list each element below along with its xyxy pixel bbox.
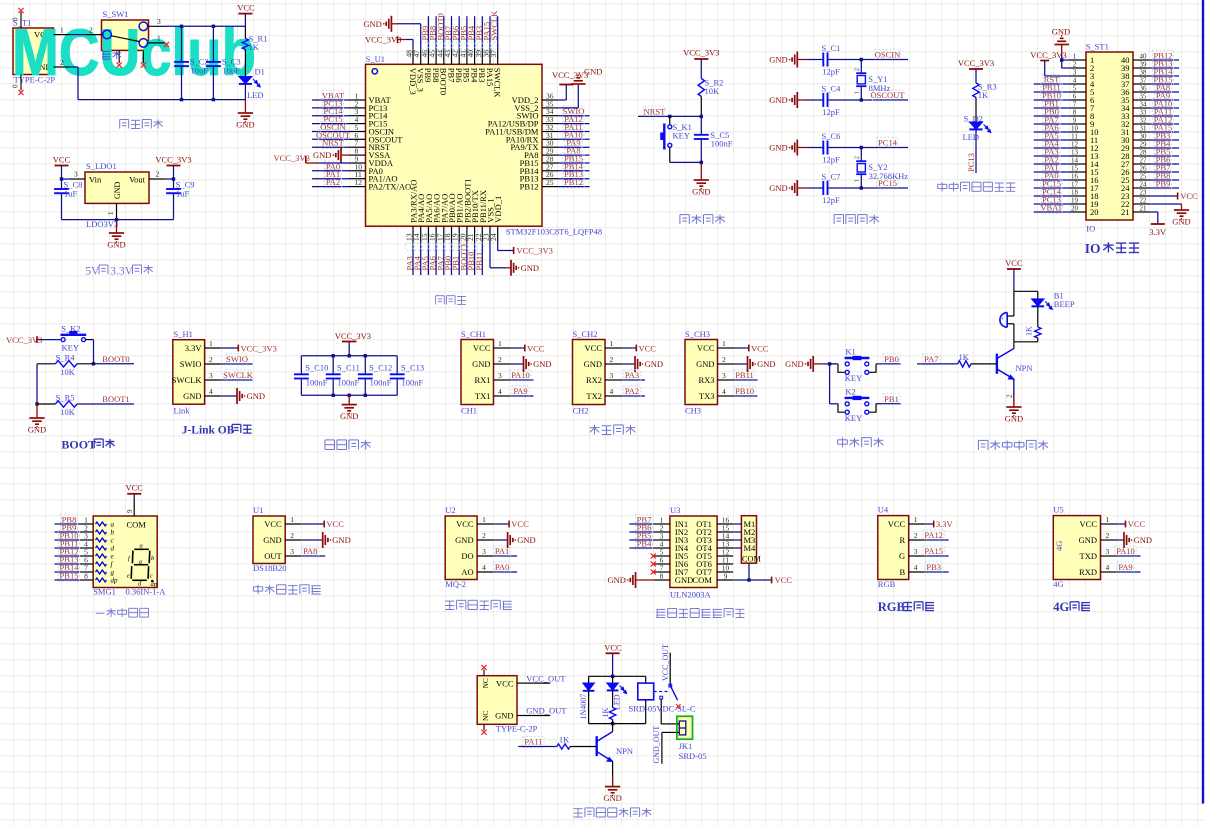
- svg-text:VCC_3V3: VCC_3V3: [274, 153, 310, 163]
- svg-text:1K: 1K: [249, 42, 260, 52]
- svg-text:PA9: PA9: [513, 386, 527, 396]
- svg-text:U1: U1: [253, 505, 263, 515]
- svg-text:1: 1: [107, 211, 115, 215]
- svg-text:1: 1: [610, 339, 614, 348]
- svg-text:SWCLK: SWCLK: [223, 370, 254, 380]
- svg-text:0: 0: [12, 17, 20, 21]
- svg-text:PC14: PC14: [878, 138, 898, 148]
- svg-text:VDD_1: VDD_1: [493, 196, 503, 223]
- svg-text:K2: K2: [845, 386, 855, 396]
- svg-text:TYPE-C-2P: TYPE-C-2P: [496, 724, 538, 734]
- svg-text:1uF: 1uF: [64, 189, 78, 199]
- svg-text:Vin: Vin: [89, 174, 102, 184]
- svg-text:1: 1: [1106, 515, 1110, 524]
- svg-text:12pF: 12pF: [822, 67, 840, 77]
- svg-text:6: 6: [1073, 93, 1077, 101]
- svg-text:b: b: [111, 529, 115, 537]
- svg-text:5: 5: [1073, 85, 1077, 93]
- svg-text:2: 2: [482, 531, 486, 540]
- svg-text:g: g: [111, 569, 115, 577]
- svg-text:a: a: [140, 542, 143, 549]
- svg-text:GND: GND: [1079, 535, 1097, 545]
- svg-text:S_C10: S_C10: [305, 363, 328, 373]
- svg-text:SWIO: SWIO: [180, 359, 202, 369]
- svg-text:2: 2: [1006, 394, 1014, 398]
- svg-text:Vout: Vout: [129, 174, 146, 184]
- svg-text:AO: AO: [461, 567, 473, 577]
- svg-text:1: 1: [854, 179, 861, 182]
- svg-text:25: 25: [1140, 173, 1148, 181]
- svg-text:R: R: [900, 535, 906, 545]
- svg-text:VCC_OUT: VCC_OUT: [526, 673, 566, 683]
- svg-text:RX2: RX2: [586, 375, 602, 385]
- svg-text:GND: GND: [263, 535, 281, 545]
- svg-text:GND: GND: [769, 143, 787, 153]
- svg-text:PA10: PA10: [1116, 546, 1135, 556]
- svg-text:S_R5: S_R5: [56, 393, 75, 403]
- svg-text:12: 12: [355, 178, 363, 187]
- svg-text:2: 2: [89, 26, 93, 35]
- svg-text:SWCLK: SWCLK: [493, 68, 503, 99]
- svg-text:36: 36: [1140, 85, 1148, 93]
- svg-text:STM32F103C8T6_LQFP48: STM32F103C8T6_LQFP48: [506, 227, 602, 237]
- svg-text:GND: GND: [1172, 217, 1190, 227]
- svg-text:OSCIN: OSCIN: [875, 50, 901, 60]
- svg-text:d: d: [111, 545, 115, 553]
- svg-text:GND: GND: [757, 359, 775, 369]
- svg-text:GND: GND: [247, 391, 265, 401]
- svg-text:PA12: PA12: [924, 530, 943, 540]
- svg-text:RX3: RX3: [698, 375, 714, 385]
- svg-text:GND: GND: [675, 575, 693, 585]
- svg-text:BOOT1: BOOT1: [102, 394, 129, 404]
- svg-text:PA11: PA11: [524, 737, 542, 747]
- svg-text:S_R4: S_R4: [56, 352, 76, 362]
- svg-text:S_C7: S_C7: [822, 172, 841, 182]
- svg-text:4G: 4G: [1054, 541, 1064, 551]
- svg-text:VBAT: VBAT: [1040, 203, 1063, 213]
- svg-text:1K: 1K: [959, 352, 970, 362]
- svg-text:LED: LED: [247, 90, 264, 100]
- svg-text:29: 29: [1140, 141, 1148, 149]
- svg-text:100nF: 100nF: [338, 378, 360, 388]
- svg-text:GND: GND: [28, 425, 46, 435]
- svg-text:11: 11: [1071, 133, 1078, 141]
- svg-text:1: 1: [290, 515, 294, 524]
- svg-text:PA8: PA8: [303, 546, 317, 556]
- svg-text:U3: U3: [670, 505, 680, 515]
- svg-text:BEEP: BEEP: [1054, 299, 1075, 309]
- svg-text:PA7: PA7: [924, 354, 938, 364]
- svg-text:20: 20: [1090, 207, 1099, 217]
- svg-text:S_U1: S_U1: [366, 54, 385, 64]
- svg-text:S_CH3: S_CH3: [685, 329, 710, 339]
- svg-text:GND: GND: [696, 359, 714, 369]
- svg-text:10uF: 10uF: [222, 65, 240, 75]
- svg-text:PA3: PA3: [625, 370, 639, 380]
- svg-text:40: 40: [1140, 53, 1148, 61]
- svg-text:+: +: [1001, 316, 1005, 323]
- svg-text:COM: COM: [127, 520, 147, 530]
- svg-text:GND: GND: [584, 67, 602, 77]
- svg-text:VCC: VCC: [1128, 519, 1146, 529]
- svg-text:SMG1: SMG1: [93, 586, 116, 596]
- svg-text:PB3: PB3: [926, 562, 941, 572]
- svg-text:3: 3: [914, 547, 918, 556]
- svg-text:VCC: VCC: [53, 155, 71, 165]
- svg-text:1: 1: [60, 26, 64, 35]
- svg-text:1: 1: [914, 515, 918, 524]
- svg-text:2: 2: [1073, 61, 1077, 69]
- svg-text:4: 4: [482, 563, 486, 572]
- svg-text:4: 4: [610, 387, 614, 396]
- svg-text:0.36IN-1-A: 0.36IN-1-A: [126, 586, 167, 596]
- svg-text:8MHz: 8MHz: [869, 83, 891, 93]
- svg-text:35: 35: [1140, 93, 1148, 101]
- svg-text:JK1: JK1: [679, 741, 693, 751]
- svg-text:8: 8: [84, 572, 88, 581]
- svg-text:B: B: [900, 567, 906, 577]
- svg-text:1K: 1K: [978, 90, 989, 100]
- svg-text:TX3: TX3: [699, 391, 715, 401]
- svg-text:SRD-05: SRD-05: [679, 751, 707, 761]
- svg-text:9: 9: [1073, 117, 1077, 125]
- svg-text:8: 8: [1073, 109, 1077, 117]
- svg-text:VCC: VCC: [511, 519, 529, 529]
- svg-text:4: 4: [498, 387, 502, 396]
- svg-text:2: 2: [156, 170, 160, 179]
- svg-text:VCC: VCC: [697, 343, 715, 353]
- svg-text:34: 34: [1140, 101, 1148, 109]
- svg-text:VCC: VCC: [775, 575, 793, 585]
- svg-text:21: 21: [1140, 205, 1148, 213]
- svg-text:VCC_3V3: VCC_3V3: [365, 35, 401, 45]
- svg-text:VCC: VCC: [527, 344, 545, 354]
- svg-text:32.768KHz: 32.768KHz: [869, 171, 909, 181]
- svg-text:SWCLK: SWCLK: [489, 10, 499, 41]
- svg-text:GND: GND: [533, 359, 551, 369]
- svg-text:VCC_OUT: VCC_OUT: [661, 644, 670, 681]
- svg-text:NC: NC: [481, 711, 490, 721]
- svg-text:dp: dp: [151, 581, 158, 588]
- svg-text:TX1: TX1: [475, 391, 491, 401]
- svg-text:ULN2003A: ULN2003A: [670, 590, 711, 600]
- svg-text:GND: GND: [769, 183, 787, 193]
- svg-text:PB4: PB4: [637, 539, 652, 549]
- svg-text:19: 19: [1071, 197, 1079, 205]
- svg-text:IO: IO: [1085, 241, 1101, 256]
- svg-text:VCC: VCC: [585, 343, 603, 353]
- svg-text:4G: 4G: [1053, 579, 1063, 589]
- svg-text:PA1: PA1: [495, 546, 509, 556]
- svg-text:4: 4: [722, 387, 726, 396]
- svg-text:3.3V: 3.3V: [1149, 227, 1167, 237]
- svg-text:TXD: TXD: [1080, 551, 1097, 561]
- svg-text:GND: GND: [521, 263, 539, 273]
- svg-text:100nF: 100nF: [370, 378, 392, 388]
- svg-text:GND: GND: [692, 187, 710, 197]
- svg-text:M4: M4: [744, 543, 757, 553]
- svg-text:26: 26: [1140, 165, 1148, 173]
- svg-text:3.3V: 3.3V: [936, 519, 954, 529]
- svg-text:S_C4: S_C4: [822, 84, 842, 94]
- svg-text:PA15: PA15: [924, 546, 943, 556]
- svg-text:GND: GND: [363, 19, 381, 29]
- svg-text:KEY: KEY: [845, 373, 862, 383]
- svg-text:VCC_3V3: VCC_3V3: [552, 70, 588, 80]
- svg-text:3: 3: [209, 371, 213, 380]
- svg-text:4: 4: [1106, 563, 1110, 572]
- svg-text:9: 9: [126, 509, 134, 513]
- svg-text:a: a: [111, 521, 115, 529]
- svg-text:VCC_3V3: VCC_3V3: [517, 246, 553, 256]
- svg-text:3.3V: 3.3V: [110, 266, 133, 278]
- svg-text:RXD: RXD: [1079, 567, 1097, 577]
- svg-text:NC: NC: [481, 678, 490, 688]
- svg-text:24: 24: [489, 233, 498, 241]
- svg-text:GND: GND: [769, 95, 787, 105]
- svg-text:100nF: 100nF: [402, 378, 424, 388]
- svg-text:VCC_3V3: VCC_3V3: [335, 331, 371, 341]
- svg-text:J-Link OB: J-Link OB: [182, 425, 235, 437]
- svg-text:GND: GND: [455, 535, 473, 545]
- svg-text:PB11: PB11: [735, 370, 754, 380]
- svg-text:PB9: PB9: [1156, 179, 1171, 189]
- svg-text:e: e: [127, 573, 130, 580]
- svg-text:37: 37: [1140, 77, 1148, 85]
- svg-text:33: 33: [1140, 109, 1148, 117]
- svg-text:VCC: VCC: [639, 344, 657, 354]
- svg-text:12: 12: [1071, 141, 1079, 149]
- svg-text:VCC: VCC: [264, 519, 282, 529]
- svg-text:12pF: 12pF: [822, 195, 840, 205]
- svg-text:PB12: PB12: [520, 182, 539, 192]
- svg-text:CH2: CH2: [573, 406, 589, 416]
- svg-text:GND: GND: [107, 240, 125, 250]
- svg-text:1: 1: [498, 339, 502, 348]
- svg-text:10K: 10K: [705, 86, 721, 96]
- svg-text:GND: GND: [603, 793, 621, 803]
- svg-text:9: 9: [724, 572, 728, 581]
- svg-text:3: 3: [290, 547, 294, 556]
- svg-text:NRST: NRST: [322, 138, 345, 148]
- svg-text:30: 30: [1140, 133, 1148, 141]
- svg-text:RGB: RGB: [878, 600, 905, 614]
- svg-text:RGB: RGB: [878, 579, 896, 589]
- svg-text:NRST: NRST: [644, 106, 667, 116]
- svg-text:TX2: TX2: [586, 391, 602, 401]
- svg-text:20: 20: [1071, 205, 1079, 213]
- svg-text:CH3: CH3: [685, 406, 701, 416]
- svg-text:CH1: CH1: [461, 406, 477, 416]
- svg-text:GND: GND: [1134, 535, 1152, 545]
- svg-text:12pF: 12pF: [822, 107, 840, 117]
- svg-text:3: 3: [722, 371, 726, 380]
- svg-text:VCC: VCC: [888, 519, 906, 529]
- svg-text:2: 2: [722, 355, 726, 364]
- svg-text:13: 13: [1071, 149, 1079, 157]
- svg-text:VCC: VCC: [496, 678, 514, 688]
- svg-text:LDO3V3: LDO3V3: [86, 219, 118, 229]
- svg-text:1: 1: [209, 339, 213, 348]
- svg-text:5V: 5V: [85, 266, 100, 278]
- svg-text:PA2: PA2: [326, 177, 340, 187]
- svg-text:PB1: PB1: [884, 394, 899, 404]
- svg-text:25: 25: [546, 178, 554, 187]
- svg-text:GND: GND: [236, 120, 254, 130]
- svg-text:U2: U2: [445, 505, 455, 515]
- svg-text:U5: U5: [1053, 505, 1063, 515]
- svg-text:100nF: 100nF: [306, 378, 328, 388]
- svg-text:PB10: PB10: [735, 386, 754, 396]
- svg-text:GND: GND: [113, 181, 122, 199]
- svg-text:VCC: VCC: [1180, 191, 1198, 201]
- svg-text:18: 18: [1071, 189, 1079, 197]
- svg-text:S_CH2: S_CH2: [573, 329, 598, 339]
- svg-text:GND: GND: [769, 55, 787, 65]
- svg-text:4: 4: [914, 563, 918, 572]
- svg-text:dp: dp: [111, 577, 119, 585]
- svg-text:PA0: PA0: [495, 562, 509, 572]
- svg-text:BOOT: BOOT: [61, 438, 96, 452]
- svg-text:VCC: VCC: [237, 3, 255, 13]
- svg-text:SRD-05VDC-SL-C: SRD-05VDC-SL-C: [629, 704, 696, 714]
- svg-text:COM: COM: [742, 555, 762, 564]
- svg-text:RX1: RX1: [474, 375, 490, 385]
- svg-text:1K: 1K: [1025, 326, 1034, 336]
- svg-text:27: 27: [1140, 157, 1148, 165]
- svg-text:3: 3: [1106, 547, 1110, 556]
- svg-text:VCC: VCC: [751, 344, 769, 354]
- svg-text:2: 2: [854, 156, 861, 159]
- svg-text:BOOT0: BOOT0: [102, 354, 129, 364]
- svg-text:2: 2: [914, 531, 918, 540]
- svg-text:GND: GND: [1005, 414, 1023, 424]
- svg-text:S_H1: S_H1: [174, 329, 193, 339]
- svg-text:D1: D1: [255, 67, 265, 77]
- svg-text:GND: GND: [332, 535, 350, 545]
- svg-text:NPN: NPN: [616, 746, 633, 756]
- svg-text:GND_OUT: GND_OUT: [526, 706, 567, 716]
- svg-text:NPN: NPN: [1016, 363, 1033, 373]
- svg-text:1: 1: [722, 339, 726, 348]
- svg-text:GND: GND: [313, 150, 331, 160]
- svg-text:GND: GND: [472, 359, 490, 369]
- svg-text:KEY: KEY: [845, 413, 862, 423]
- svg-text:2: 2: [854, 68, 861, 71]
- svg-text:S_CH1: S_CH1: [461, 329, 486, 339]
- svg-text:4: 4: [209, 387, 213, 396]
- svg-text:VCC: VCC: [456, 519, 474, 529]
- svg-text:15: 15: [1071, 165, 1079, 173]
- svg-text:100nF: 100nF: [711, 138, 733, 148]
- svg-text:3: 3: [157, 17, 161, 26]
- svg-text:PA10: PA10: [511, 370, 530, 380]
- svg-text:4: 4: [1073, 77, 1077, 85]
- svg-text:GND: GND: [584, 359, 602, 369]
- svg-text:1N4007: 1N4007: [579, 694, 588, 720]
- svg-text:16: 16: [1071, 173, 1079, 181]
- svg-text:32: 32: [1140, 117, 1148, 125]
- svg-text:S_C1: S_C1: [822, 43, 841, 53]
- svg-text:VCC: VCC: [604, 642, 622, 652]
- svg-text:COM: COM: [693, 575, 713, 585]
- svg-text:VCC: VCC: [473, 343, 491, 353]
- svg-text:GND: GND: [340, 411, 358, 421]
- svg-text:S_C12: S_C12: [369, 363, 392, 373]
- svg-text:3.3V: 3.3V: [185, 343, 203, 353]
- svg-text:21: 21: [1121, 207, 1130, 217]
- svg-text:U4: U4: [878, 505, 889, 515]
- svg-text:S_C13: S_C13: [401, 363, 424, 373]
- svg-text:PB15: PB15: [60, 571, 79, 581]
- svg-text:1: 1: [1073, 53, 1077, 61]
- svg-text:2: 2: [290, 531, 294, 540]
- svg-text:VCC_3V3: VCC_3V3: [155, 155, 191, 165]
- svg-text:c: c: [150, 573, 153, 580]
- svg-text:1: 1: [482, 515, 486, 524]
- svg-text:SWCLK: SWCLK: [172, 375, 203, 385]
- svg-text:8: 8: [660, 572, 664, 581]
- svg-text:MQ-2: MQ-2: [445, 579, 466, 589]
- svg-text:10uF: 10uF: [191, 65, 209, 75]
- svg-text:VCC_3V3: VCC_3V3: [1030, 50, 1066, 60]
- svg-text:GND: GND: [645, 359, 663, 369]
- svg-text:3: 3: [610, 371, 614, 380]
- svg-text:31: 31: [1140, 125, 1148, 133]
- svg-text:PC13: PC13: [966, 153, 976, 172]
- svg-text:PB11: PB11: [474, 252, 484, 271]
- svg-text:0: 0: [12, 84, 20, 88]
- svg-text:KEY: KEY: [62, 343, 79, 353]
- svg-text:1K: 1K: [601, 708, 610, 718]
- svg-text:1: 1: [157, 34, 161, 43]
- svg-text:24: 24: [1140, 181, 1148, 189]
- svg-text:VCC: VCC: [1005, 258, 1023, 268]
- svg-text:23: 23: [1140, 189, 1148, 197]
- svg-text:2: 2: [610, 355, 614, 364]
- svg-text:PB12: PB12: [564, 177, 583, 187]
- svg-text:IO: IO: [1086, 224, 1095, 234]
- svg-text:37: 37: [489, 50, 498, 58]
- svg-text:38: 38: [1140, 69, 1148, 77]
- svg-text:PB0: PB0: [884, 354, 899, 364]
- svg-text:3: 3: [482, 547, 486, 556]
- svg-text:G: G: [899, 551, 905, 561]
- svg-text:PA9: PA9: [1118, 562, 1132, 572]
- svg-text:VCC_3V3: VCC_3V3: [958, 58, 994, 68]
- svg-text:VCC: VCC: [125, 483, 143, 493]
- svg-text:VCC: VCC: [326, 519, 344, 529]
- svg-text:7: 7: [1073, 101, 1077, 109]
- svg-text:12pF: 12pF: [822, 155, 840, 165]
- svg-text:1: 1: [854, 91, 861, 94]
- svg-text:3: 3: [74, 170, 78, 179]
- svg-text:4G: 4G: [1053, 600, 1069, 614]
- svg-text:Link: Link: [174, 406, 191, 416]
- svg-text:17: 17: [1071, 181, 1079, 189]
- svg-text:10K: 10K: [60, 367, 75, 377]
- svg-text:S_C11: S_C11: [337, 363, 360, 373]
- svg-text:K1: K1: [845, 346, 855, 356]
- svg-text:VCC_3V3: VCC_3V3: [683, 48, 719, 58]
- svg-text:3: 3: [1073, 69, 1077, 77]
- svg-text:SWIO: SWIO: [226, 354, 248, 364]
- svg-text:22: 22: [1140, 197, 1148, 205]
- svg-text:1K: 1K: [559, 735, 570, 745]
- svg-text:e: e: [111, 553, 114, 561]
- svg-text:GND: GND: [517, 535, 535, 545]
